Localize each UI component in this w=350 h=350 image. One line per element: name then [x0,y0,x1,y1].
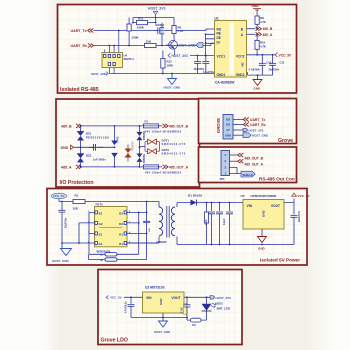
resistor 15K [145,39,157,47]
wire FET right pins [127,212,159,254]
capacitor C1 [59,201,68,243]
connector J1 Grove [223,115,233,140]
svg-text:VCC2: VCC2 [236,55,245,59]
svg-text:4.7K: 4.7K [260,20,266,24]
diode DZ2 [77,147,106,168]
svg-text:4.7uF/6.3v: 4.7uF/6.3v [125,301,128,313]
svg-text:22uF/6.3v: 22uF/6.3v [298,210,301,222]
svg-text:SHIELD: SHIELD [243,173,253,177]
wire jp1 pin2 pin1 [230,167,242,173]
diode D1 B1019 [177,193,243,205]
port 485_OUT_A [163,165,189,170]
ground HOST_GND block5 [52,243,72,263]
block frame Isolated RS-485 [58,5,297,94]
svg-text:UART_Tx: UART_Tx [71,29,87,33]
GDT2 [145,148,186,156]
wire UART_Tx net [94,29,215,31]
svg-text:PSM712: PSM712 [132,141,135,151]
GDT1 [145,138,186,146]
TVS2 array [112,125,120,168]
resistor R12 vertical [161,51,173,74]
svg-text:HOST_3V3: HOST_3V3 [148,7,165,11]
transistor Q1 [166,40,177,56]
svg-text:SMT_LED: SMT_LED [217,306,231,310]
IC U2 LDO [143,292,185,313]
ground GND isolated block1 [253,74,262,90]
svg-text:VCC_5V: VCC_5V [298,194,311,198]
svg-text:HOST_GND: HOST_GND [252,134,268,138]
wire U3 gnd stub [261,229,263,237]
svg-text:U2 MST3103: U2 MST3103 [145,286,165,290]
wire UART_Rx net [94,43,215,45]
svg-text:DZ2: DZ2 [86,154,92,158]
svg-text:Isolated RS-485: Isolated RS-485 [60,87,99,93]
LED1 [202,296,231,320]
port 485_OUT_B jp1 [238,153,264,160]
svg-text:CA-IS3082W: CA-IS3082W [215,81,235,85]
svg-text:0.1uF/50v: 0.1uF/50v [203,71,215,74]
net flag HOST_GND grove [243,133,268,138]
net flag HOST_3V3 grove [243,128,264,132]
svg-text:VOUT: VOUT [171,296,180,300]
svg-text:VOUT: VOUT [271,204,280,208]
svg-text:LPR6235: LPR6235 [156,241,167,244]
net flag HOST_GND left of U4 [91,72,108,77]
resistor R9 [172,25,184,39]
capacitor C4 [216,202,223,245]
svg-text:DI: DI [217,41,220,45]
block frame Isolated 5V Power [47,189,307,266]
capacitor C14 [181,296,191,317]
svg-text:HOST_GND: HOST_GND [52,259,70,263]
svg-text:SMD4032-075: SMD4032-075 [162,143,186,146]
resistor R1 [73,194,86,211]
power flag VCC_5V in [51,193,67,199]
port 485_OUT_A jp1 [238,159,264,166]
capacitor C13 [125,296,135,317]
junction dots block5 [211,244,231,246]
capacitor C5 [194,56,205,74]
svg-text:GND: GND [159,299,163,305]
svg-text:S1: S1 [99,233,103,237]
junction dots block1 [109,22,207,75]
svg-text:GND: GND [252,4,260,8]
svg-text:G1: G1 [99,242,103,246]
TVS4 diode pair lower [137,147,143,168]
svg-text:GND: GND [258,247,266,251]
block frame RS-485 Out Con [199,147,297,183]
wire U3 vout [284,199,294,209]
svg-text:UART_Rx: UART_Rx [250,123,266,127]
port GND mid left [61,145,74,150]
wire grove pin4 [233,134,243,136]
svg-text:485_OUT_B: 485_OUT_B [245,156,264,160]
IC U3 regulator [241,194,285,229]
svg-text:DE: DE [217,36,221,40]
svg-text:IO2: IO2 [226,118,231,122]
svg-text:40V 100mA 3K-NSMD010: 40V 100mA 3K-NSMD010 [145,131,182,134]
ESD array U4 [102,31,134,74]
resistor R10 [255,34,266,55]
svg-text:HOST_GND: HOST_GND [178,44,196,48]
power flag VCC_5V out [292,193,311,198]
net flag HOST_3V3 to VCC1 [168,53,188,58]
ground HOST_GND ldo [154,317,188,334]
transformer T1 [127,202,177,245]
svg-text:GDT1: GDT1 [162,138,170,142]
svg-text:22uF: 22uF [205,219,208,225]
svg-text:4.7uF/50v: 4.7uF/50v [249,68,261,71]
yellow cap body [184,304,188,315]
resistor 100K vertical [127,18,140,46]
svg-text:GROVE: GROVE [216,118,221,133]
net flag HOST_GND mid [178,43,204,48]
wire ldo input [124,296,143,298]
svg-text:I/O Protection: I/O Protection [60,180,94,186]
svg-text:RE: RE [217,31,221,35]
port 485_OUT_B [163,124,189,128]
svg-text:VIN: VIN [146,296,152,300]
wire HOST_3V3 to rail [133,15,174,26]
wire caps bottom rail right [248,72,273,79]
port 485_B in [61,124,82,128]
svg-text:15K: 15K [146,39,152,43]
svg-text:RS-485 Out Con: RS-485 Out Con [259,177,295,182]
IC FET1 WSD3033 [88,202,131,253]
resistor R11 [133,17,156,30]
wire jp1 pin3 [230,160,239,162]
capacitor C3 [205,202,215,245]
svg-text:485_A: 485_A [61,165,72,169]
capacitor C12 [89,144,104,151]
svg-text:GND: GND [61,146,69,150]
svg-text:HOST_3V3: HOST_3V3 [249,128,264,132]
svg-text:Isolated 5V Power: Isolated 5V Power [260,258,300,263]
svg-text:GDT2: GDT2 [162,148,170,152]
svg-text:485_OUT_A: 485_OUT_A [245,163,264,167]
svg-text:HOST_GND: HOST_GND [91,72,107,76]
wire ldo gnd rail [131,313,187,318]
resistor R8 [255,10,266,29]
port UART_Rx [71,44,94,48]
svg-text:485_OUT_A: 485_OUT_A [169,165,189,169]
wire jp1 pin4 [230,154,239,156]
svg-text:UART_Tx: UART_Tx [250,118,265,122]
fuse F1 [144,120,182,134]
port UART_Rx grove [243,123,266,128]
svg-text:U4: U4 [124,54,128,58]
resistor R5 feedback [89,233,139,256]
svg-text:P0805A: P0805A [143,131,146,140]
svg-text:GND2: GND2 [236,73,245,77]
svg-text:F1: F1 [145,120,149,124]
svg-text:40V 100mA 3K-NSMD010: 40V 100mA 3K-NSMD010 [145,172,182,175]
svg-text:SI2302: SI2302 [155,23,164,27]
svg-text:DZ1: DZ1 [86,131,92,135]
svg-text:10R: 10R [73,207,79,211]
svg-text:VCC_5V: VCC_5V [279,53,293,57]
svg-text:Grove LDO: Grove LDO [101,338,128,344]
svg-text:485_B: 485_B [61,124,72,128]
svg-text:JP1: JP1 [220,177,226,181]
connector JP1 [220,151,230,182]
svg-text:4.7uF: 4.7uF [181,307,184,314]
svg-text:Grove: Grove [278,138,293,144]
capacitor C11 [269,54,285,75]
svg-text:GND1: GND1 [217,73,226,77]
capacitor C2 mid [143,201,151,235]
svg-text:HOST_3V3: HOST_3V3 [216,296,232,300]
svg-text:U3: U3 [241,194,245,198]
svg-text:1uF: 1uF [149,227,151,232]
TVS3 diode pair upper [137,125,143,148]
svg-text:SRV05-4: SRV05-4 [124,58,135,61]
net flag SHIELD [241,171,255,177]
svg-text:100K: 100K [167,64,174,68]
wire VCC1 net [190,55,215,57]
resistor R6 feedback [89,233,147,261]
diode DZ1 [77,125,109,148]
power flag VCC_5V ldo in [106,296,122,300]
block frame I/O Protection [56,99,200,187]
wire 485_B row [82,125,162,127]
port 485_A in [61,165,82,169]
svg-text:D1: D1 [119,242,123,246]
svg-text:HOST_GND: HOST_GND [164,86,182,90]
svg-text:U1: U1 [215,16,219,20]
svg-text:4.7K: 4.7K [260,44,266,48]
svg-text:D2: D2 [119,212,123,216]
power flag HOST_3V3 top [148,7,165,15]
svg-text:485_B: 485_B [263,27,273,31]
capacitor C7 [223,202,233,245]
wire ground rail block1 [109,74,214,79]
svg-text:TVS2: TVS2 [116,136,120,143]
svg-text:SMD4032-075: SMD4032-075 [162,152,186,155]
svg-text:485_A: 485_A [263,33,273,37]
svg-text:GND: GND [254,86,262,90]
net flag HOST_3V3 ldo [210,296,231,301]
wire grove pin3 [233,129,243,131]
svg-text:1nF-2000v: 1nF-2000v [93,158,106,162]
svg-text:R1: R1 [75,194,79,198]
svg-text:GND: GND [262,210,266,218]
svg-text:100K: 100K [132,36,140,40]
svg-text:22uF/16v: 22uF/16v [65,217,68,228]
svg-text:FET1: FET1 [96,202,104,206]
svg-text:C11: C11 [280,60,285,64]
resistor R3 snubber [204,202,208,245]
net flag VCC_5V right [247,53,293,58]
svg-text:4.7K: 4.7K [178,29,184,33]
wire U1 left bus [206,34,215,55]
resistor R4 1K [187,318,207,327]
wire 485_A row [82,166,162,168]
svg-text:IO1: IO1 [226,123,231,127]
wire secondary bottom rail [177,218,294,245]
svg-text:PESD1V5L1BA: PESD1V5L1BA [86,136,109,140]
diode PSM712 red pair [125,141,135,162]
svg-text:G2: G2 [99,222,103,226]
wire GND mid row [74,146,116,148]
svg-text:GND: GND [225,134,231,138]
svg-text:VCC_5V: VCC_5V [110,296,122,300]
transistor Q2 SI2302 [155,22,165,47]
wire FET left pins [62,212,95,243]
svg-text:P0805A: P0805A [143,154,146,163]
block frame Grove LDO [98,270,242,345]
svg-text:R11: R11 [138,17,144,21]
port 485_B [247,27,273,32]
IC U1 CA-IS3082W [215,16,247,84]
wire grove pin1 [233,119,243,121]
wire GDT vertical links [140,142,160,152]
svg-text:100K: 100K [137,25,145,29]
wire top rail primary [59,199,159,211]
capacitor C8 right [291,209,302,223]
svg-text:485_OUT_B: 485_OUT_B [169,124,189,128]
svg-text:UART_Rx: UART_Rx [71,44,88,48]
block frame Grove [199,99,297,144]
capacitor C6 [202,56,215,74]
svg-text:HOST_3V3: HOST_3V3 [172,54,189,58]
capacitor C10 [249,54,272,75]
svg-text:3V: 3V [226,128,229,132]
svg-text:D2: D2 [119,222,123,226]
power GND top [252,4,262,10]
port UART_Tx [71,29,94,33]
wire ldo output [184,296,210,298]
svg-text:VCC_5V: VCC_5V [53,194,65,198]
svg-text:S2: S2 [99,212,103,216]
svg-text:VCC1: VCC1 [217,55,226,59]
ground HOST_GND block1 [164,79,182,90]
ground GND block5 [258,237,267,251]
port 485_A [247,32,273,37]
svg-text:LED1: LED1 [216,301,224,305]
svg-text:D1 B1019: D1 B1019 [188,193,202,197]
svg-text:VIN: VIN [247,204,253,208]
svg-text:10uF/50v: 10uF/50v [269,68,280,71]
svg-text:HOST_GND: HOST_GND [154,330,170,334]
fuse F2 [144,165,182,175]
port UART_Tx grove [243,118,265,123]
svg-text:0.1uF: 0.1uF [223,218,226,225]
wire grove pin2 [233,124,243,126]
svg-text:HT8K50SP162MR: HT8K50SP162MR [251,194,277,198]
svg-text:D1: D1 [119,233,123,237]
